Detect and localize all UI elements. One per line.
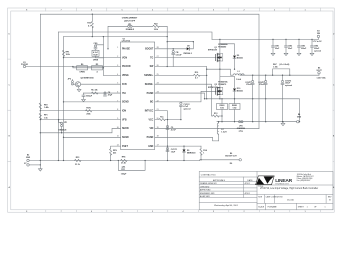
wire SW pin <box>155 67 207 99</box>
terminal E6 out <box>239 159 241 161</box>
svg-text:TG: TG <box>150 57 153 59</box>
wire E1 PGOOD <box>26 66 121 68</box>
diode D10 <box>233 89 236 92</box>
frame zone ticks right <box>333 59 334 161</box>
frame zone ticks bottom <box>46 210 321 212</box>
resistor RON <box>86 110 92 112</box>
wire FCB pin <box>81 83 121 85</box>
svg-text:R22: R22 <box>154 23 157 25</box>
wire SGND2 pin <box>64 136 121 138</box>
wire bottom bus <box>29 160 200 162</box>
capacitor CB boost <box>172 49 174 67</box>
svg-text:JP1: JP1 <box>64 122 67 124</box>
wire bus1 <box>58 32 212 39</box>
capacitor COUT5 <box>282 75 284 122</box>
resistor RF3 <box>75 159 81 161</box>
svg-text:10: 10 <box>117 127 119 129</box>
resistor R10 <box>194 74 200 76</box>
wire VON pin <box>64 57 121 59</box>
wire E7 stub <box>29 164 40 166</box>
svg-text:PGND: PGND <box>147 93 154 95</box>
svg-text:270uF: 270uF <box>259 84 265 86</box>
wire bus2 <box>64 36 168 38</box>
svg-text:4: 4 <box>117 74 118 76</box>
capacitor COUT1 <box>252 75 254 122</box>
svg-text:21: 21 <box>157 109 159 111</box>
resistor RF4 series <box>121 159 127 161</box>
terminal E5 VOUT <box>318 74 320 75</box>
svg-text:330uF: 330uF <box>301 48 307 50</box>
svg-text:GND: GND <box>26 157 31 159</box>
svg-text:FSET: FSET <box>122 146 128 148</box>
svg-text:SENSE+: SENSE+ <box>144 75 154 77</box>
wire GND pin <box>155 145 201 147</box>
diode D9 <box>233 56 236 59</box>
wire VFB pin <box>40 119 120 121</box>
title block main divider <box>256 171 258 209</box>
capacitor C9 <box>166 126 169 130</box>
transistor Q2 <box>216 87 223 96</box>
wire PGND pin <box>155 93 205 99</box>
wire GND bus <box>217 121 297 123</box>
wire left loop2 <box>63 37 65 161</box>
wire SENSE+ pin <box>155 74 207 76</box>
title block outline <box>199 171 333 209</box>
svg-text:4/7/01: 4/7/01 <box>245 193 250 195</box>
resistor R5 box <box>92 66 103 70</box>
svg-text:CF1: CF1 <box>122 166 126 168</box>
wire PGND2 pin <box>155 137 219 141</box>
svg-text:GND: GND <box>148 146 153 148</box>
wire VIN pin <box>155 127 259 129</box>
wire BG pin <box>155 91 216 102</box>
svg-text:RON: RON <box>86 108 91 110</box>
resistor R16 <box>91 14 93 36</box>
svg-text:0.33uF: 0.33uF <box>176 55 183 57</box>
svg-text:PHASE: PHASE <box>122 48 130 51</box>
title block left rows <box>199 177 257 203</box>
svg-text:RSNS2: RSNS2 <box>232 105 237 107</box>
svg-text:VCC: VCC <box>148 119 153 121</box>
svg-text:23: 23 <box>157 91 159 93</box>
svg-text:BG: BG <box>150 102 154 104</box>
svg-text:SHEET: SHEET <box>298 207 305 209</box>
transistor Q1 <box>216 53 223 62</box>
svg-text:LTC3713, Low Input Voltage, Hi: LTC3713, Low Input Voltage, High Current… <box>260 187 318 190</box>
svg-text:1.0uH: 1.0uH <box>236 79 242 81</box>
svg-text:FCB: FCB <box>122 84 127 86</box>
svg-text:SENSE-: SENSE- <box>145 84 154 86</box>
transistor Q3 <box>75 82 80 87</box>
svg-text:1.25V 10A: 1.25V 10A <box>317 77 327 80</box>
frame inner rect <box>11 11 333 210</box>
wire left rail <box>39 14 41 168</box>
wire Q1 source <box>219 62 221 69</box>
svg-text:E7: E7 <box>24 163 26 165</box>
IC pin names left <box>122 48 131 148</box>
svg-text:4.7uF: 4.7uF <box>171 129 177 132</box>
wire VOSNS out <box>200 159 239 162</box>
wire D10 bottom <box>234 91 236 99</box>
svg-text:L1: L1 <box>237 71 239 73</box>
capacitor CVCC2 <box>180 106 182 119</box>
svg-text:DWG NO: DWG NO <box>276 196 284 198</box>
svg-text:19: 19 <box>157 127 159 129</box>
svg-text:OPEN: OPEN <box>79 72 85 74</box>
frame zone ticks left <box>8 59 11 161</box>
svg-text:4/7/01: 4/7/01 <box>245 183 250 185</box>
terminal E1 <box>23 65 25 67</box>
svg-text:PGOOD: PGOOD <box>21 64 29 66</box>
svg-text:1: 1 <box>203 152 204 154</box>
svg-text:VFB: VFB <box>122 119 127 121</box>
svg-text:DRAWN GENE WU: DRAWN GENE WU <box>200 182 217 185</box>
capacitor CIN2 <box>285 39 287 53</box>
svg-text:12: 12 <box>117 145 119 147</box>
frame outer rect <box>8 8 335 212</box>
wire ITH pin <box>84 92 121 94</box>
inductor L2 <box>218 122 220 123</box>
terminal E7 <box>27 164 29 166</box>
svg-text:6: 6 <box>117 91 118 93</box>
title block bottom row dividers <box>265 203 296 210</box>
CSS value box <box>92 50 99 56</box>
svg-text:SCALE: SCALE <box>258 206 265 209</box>
ground Q3 emitter <box>78 87 81 89</box>
svg-text:CONTRACT NO.: CONTRACT NO. <box>201 174 217 177</box>
svg-text:0.002: 0.002 <box>220 108 224 110</box>
svg-text:optional: optional <box>183 107 190 110</box>
svg-text:25: 25 <box>157 74 159 76</box>
svg-text:4.7: 4.7 <box>88 24 91 27</box>
svg-text:9: 9 <box>117 118 118 120</box>
wire VCC pin <box>155 119 181 121</box>
svg-text:24: 24 <box>157 83 159 85</box>
resistor R6 box <box>77 66 88 70</box>
svg-text:(L1=1.0uH): (L1=1.0uH) <box>280 64 290 66</box>
svg-text:18: 18 <box>157 136 159 138</box>
svg-text:B340A: B340A <box>237 90 244 93</box>
svg-text:R6: R6 <box>81 64 83 66</box>
wire D9 bottom <box>234 58 236 69</box>
frame zone labels <box>8 9 334 213</box>
svg-text:1: 1 <box>117 47 118 49</box>
terminal E3 VIN <box>317 38 319 40</box>
wire SENSE- pin <box>155 84 222 116</box>
svg-text:VIN: VIN <box>149 128 153 130</box>
svg-text:D8: D8 <box>187 45 189 47</box>
wire TG pin <box>155 57 216 59</box>
resistor RSNS2 box <box>229 104 240 110</box>
wire ION pin <box>40 110 120 112</box>
svg-text:D6: D6 <box>230 163 232 165</box>
svg-text:R10: R10 <box>195 72 198 74</box>
svg-text:OVERCURRENT: OVERCURRENT <box>122 18 138 20</box>
svg-text:1: 1 <box>307 207 308 209</box>
svg-text:IRF7811W: IRF7811W <box>208 87 217 89</box>
svg-text:BOOST OUT: BOOST OUT <box>225 156 237 158</box>
ground GND bus arrow <box>282 122 284 124</box>
svg-text:22: 22 <box>157 100 159 102</box>
jumper JP2 <box>71 81 73 85</box>
capacitor C8 <box>104 92 107 96</box>
svg-text:OPEN: OPEN <box>93 59 99 61</box>
svg-text:VOUT: VOUT <box>316 70 322 72</box>
wire left loop1 <box>57 32 59 161</box>
wire SW rail <box>207 69 233 75</box>
wire BOOST pin <box>155 42 194 49</box>
wire FSET pin <box>111 146 121 160</box>
jumper JP1 <box>61 122 63 126</box>
svg-text:100pF: 100pF <box>121 173 127 175</box>
resistor R1a <box>159 119 165 121</box>
wire Q2 source <box>219 96 221 99</box>
resistor RC <box>92 92 98 94</box>
inductor L1 <box>233 74 244 75</box>
IC pin numbers right <box>157 47 159 146</box>
jumper JP4 <box>239 121 243 123</box>
wire Q1 drain <box>220 39 235 54</box>
LT address <box>297 173 314 182</box>
svg-text:27: 27 <box>157 56 159 58</box>
jumper JP3 <box>128 25 132 27</box>
svg-text:LTC3713: LTC3713 <box>122 41 131 43</box>
svg-text:R16: R16 <box>87 23 90 25</box>
svg-text:VON: VON <box>122 57 127 59</box>
svg-text:FDS6670: FDS6670 <box>218 84 226 86</box>
svg-text:CHECKED: CHECKED <box>200 187 210 189</box>
svg-text:Q3 MMBT3904: Q3 MMBT3904 <box>81 77 95 80</box>
svg-text:ENGINEER JWS: ENGINEER JWS <box>200 193 215 195</box>
svg-text:1.7V to 5V: 1.7V to 5V <box>312 40 322 43</box>
svg-text:20: 20 <box>157 118 159 120</box>
svg-text:1: 1 <box>325 207 326 209</box>
title block size row lines <box>257 195 333 204</box>
svg-text:JP3: JP3 <box>128 24 131 26</box>
svg-text:ION: ION <box>122 110 126 112</box>
capacitor CF1 <box>121 168 124 169</box>
svg-text:SGND: SGND <box>122 102 129 104</box>
svg-text:Phone: (408)432-1900: Phone: (408)432-1900 <box>297 178 313 180</box>
ground left rail <box>38 169 42 171</box>
svg-text:FDS6680: FDS6680 <box>218 47 226 49</box>
terminal E2 <box>27 159 29 161</box>
svg-text:ITH: ITH <box>122 93 126 95</box>
feedback loop wires <box>118 161 145 171</box>
svg-text:Wednesday, April 04, 2001: Wednesday, April 04, 2001 <box>214 204 239 207</box>
capacitor CC1 <box>83 93 85 99</box>
svg-text:ACAD VER: ACAD VER <box>200 195 210 198</box>
svg-text:BLM: BLM <box>94 54 98 56</box>
diode D5 <box>183 146 185 160</box>
svg-text:R13: R13 <box>214 113 217 115</box>
op IC U1 LTC3713 body <box>121 42 155 150</box>
wire INTVCC pin <box>155 111 168 161</box>
svg-text:INTVCC: INTVCC <box>145 110 154 112</box>
capacitor CIN4 <box>311 39 313 53</box>
svg-text:PGND: PGND <box>147 137 154 139</box>
frame zone ticks top <box>46 8 321 11</box>
resistor R22 <box>153 25 159 27</box>
svg-text:TECHNOLOGY: TECHNOLOGY <box>275 183 289 185</box>
svg-text:4.7: 4.7 <box>195 77 198 80</box>
svg-text:1000pF: 1000pF <box>86 95 93 97</box>
wire JP3 to R22 <box>132 25 153 27</box>
svg-text:DATE: DATE <box>247 179 253 182</box>
title block logo row divider <box>257 184 333 186</box>
wire VIN rail <box>212 38 318 40</box>
svg-text:8: 8 <box>117 109 118 111</box>
wire L1 right <box>240 74 244 76</box>
wire SHDN pin <box>40 128 120 132</box>
svg-text:0.002: 0.002 <box>233 108 237 110</box>
svg-text:DC410: DC410 <box>287 200 295 202</box>
svg-text:optional: optional <box>314 49 321 52</box>
svg-text:IRF7811W: IRF7811W <box>208 49 217 51</box>
title block size row dividers <box>265 195 327 204</box>
svg-text:7: 7 <box>117 100 118 102</box>
diode D8 <box>187 47 190 50</box>
svg-text:LINEAR: LINEAR <box>275 178 292 184</box>
wire VOUT rail <box>240 74 319 76</box>
svg-text:PGOOD: PGOOD <box>122 66 131 68</box>
svg-text:SGND: SGND <box>122 137 129 139</box>
svg-text:APPROVALS: APPROVALS <box>213 179 226 182</box>
svg-text:MBR0530: MBR0530 <box>187 152 196 154</box>
wire PGND rail <box>205 99 300 122</box>
svg-text:Fax: (408)434-0507: Fax: (408)434-0507 <box>297 180 311 182</box>
capacitor CVCC1 <box>166 148 169 152</box>
svg-text:28: 28 <box>157 47 159 49</box>
svg-text:optional: optional <box>285 84 292 87</box>
svg-text:RSNS1: RSNS1 <box>219 105 224 107</box>
svg-text:LATCH OFF: LATCH OFF <box>124 19 136 22</box>
svg-text:RC 33k: RC 33k <box>91 90 98 92</box>
resistor RFS <box>110 149 112 155</box>
svg-text:2: 2 <box>117 56 118 58</box>
svg-text:DISABLE: DISABLE <box>126 28 135 31</box>
capacitor COUT2 <box>265 75 267 122</box>
wire Q2 drain <box>220 69 235 88</box>
resistor RF1 <box>39 113 41 119</box>
title block left date col divider <box>242 177 244 198</box>
resistor RSNS1 box <box>217 104 228 110</box>
svg-text:270uF: 270uF <box>246 84 252 86</box>
svg-text:11: 11 <box>117 136 119 138</box>
capacitor CSS <box>96 45 104 58</box>
LT logo <box>256 176 293 186</box>
wire CSS leg <box>102 37 104 76</box>
wire SGND pin <box>64 101 121 103</box>
svg-text:ENABLE: ENABLE <box>59 129 68 132</box>
svg-text:BOOST: BOOST <box>145 49 154 51</box>
resistor R14 <box>200 146 202 160</box>
svg-text:GND: GND <box>297 117 302 119</box>
capacitor CIN3 <box>298 39 300 53</box>
resistor R13 <box>213 115 219 117</box>
svg-text:17: 17 <box>157 145 159 147</box>
resistor RP1 <box>62 50 64 56</box>
svg-text:FILENAME: FILENAME <box>268 206 278 209</box>
svg-text:CMDSH-3: CMDSH-3 <box>183 53 192 55</box>
svg-text:JP2: JP2 <box>68 78 71 80</box>
resistor RLP jog <box>273 69 290 75</box>
svg-text:RF3: RF3 <box>76 157 80 159</box>
svg-text:B340A: B340A <box>237 57 244 60</box>
svg-text:3: 3 <box>117 65 118 67</box>
svg-text:APPROVED: APPROVED <box>200 189 211 192</box>
terminal E4 GND <box>297 121 299 123</box>
wire R22 right <box>159 26 194 66</box>
svg-text:5: 5 <box>117 83 118 85</box>
wire JP3 left <box>108 26 128 49</box>
svg-text:R5: R5 <box>96 64 98 66</box>
svg-text:VRNG: VRNG <box>122 75 129 77</box>
capacitor CIN1 <box>272 39 274 53</box>
IC pin names right <box>144 49 154 148</box>
resistor RF2 <box>39 103 41 109</box>
svg-text:SHDN: SHDN <box>122 128 129 130</box>
wire top VIN bus <box>40 14 259 128</box>
IC pin numbers left <box>117 47 119 146</box>
svg-text:1.0uH: 1.0uH <box>221 132 227 134</box>
svg-text:26: 26 <box>157 65 159 67</box>
wire R6 R5 row <box>73 67 121 76</box>
